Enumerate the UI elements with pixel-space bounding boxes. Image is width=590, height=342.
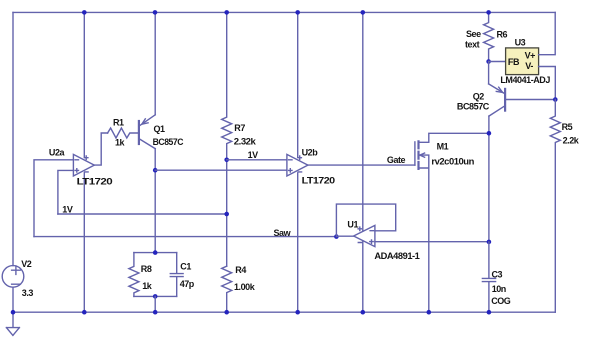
svg-text:V2: V2 [21, 259, 32, 269]
svg-text:C1: C1 [180, 262, 191, 272]
junction top rail at R7 [224, 10, 229, 15]
svg-text:LT1720: LT1720 [77, 177, 113, 187]
svg-text:R8: R8 [141, 264, 152, 274]
svg-text:1.00k: 1.00k [234, 282, 256, 292]
wire V2 bottom to rail [12, 287, 14, 312]
junction U1 +input at C3 [487, 240, 492, 245]
svg-text:1V: 1V [62, 204, 73, 214]
svg-text:V-: V- [525, 61, 533, 71]
wire M1 drain to collector node [429, 133, 489, 142]
junction bottom rail at U2b [295, 310, 300, 315]
resistor R6 [484, 12, 494, 61]
junction bottom rail at C3 [487, 310, 492, 315]
junction top rail at U2b [295, 10, 300, 15]
resistor R1 [108, 128, 139, 138]
mosfet M1 [415, 141, 429, 169]
svg-text:C3: C3 [492, 270, 503, 280]
junction M1 drain Q2 collector [487, 131, 492, 136]
wire U1 V+ column [362, 12, 364, 231]
wire bottom rail [13, 311, 555, 313]
svg-text:2.32k: 2.32k [234, 137, 257, 147]
transistor Q1 [139, 115, 155, 149]
svg-text:M1: M1 [437, 141, 449, 151]
resistor R5 [550, 100, 560, 313]
svg-text:COG: COG [491, 296, 511, 306]
svg-text:3.3: 3.3 [22, 288, 34, 298]
svg-text:text: text [465, 40, 480, 50]
wire 1V net [58, 213, 227, 215]
svg-text:LM4041-ADJ: LM4041-ADJ [500, 75, 550, 85]
junction top rail at Q1 [153, 10, 158, 15]
wire U2b V- column [297, 173, 299, 312]
wire Q1 collector down to R8 C1 [154, 149, 156, 253]
wire U2a V+ column [83, 12, 85, 157]
svg-text:BC857C: BC857C [153, 137, 184, 147]
junction bottom rail at R4 [224, 310, 229, 315]
junction bottom rail at U1 [361, 310, 366, 315]
junction bottom rail at R8 C1 [153, 310, 158, 315]
junction ramp node at R8 C1 top [153, 250, 158, 255]
svg-text:1V: 1V [248, 150, 259, 160]
wire Q2 base to R5 node [505, 99, 555, 101]
svg-text:U2b: U2b [302, 148, 319, 158]
svg-text:R6: R6 [497, 29, 508, 39]
svg-text:R5: R5 [562, 122, 573, 132]
wire M1 source to bottom rail [428, 168, 430, 312]
junction bottom rail at M1 source [427, 310, 432, 315]
svg-text:Q2: Q2 [473, 91, 485, 101]
svg-text:BC857C: BC857C [457, 102, 490, 112]
svg-text:U2a: U2a [49, 147, 66, 157]
svg-text:See: See [466, 29, 481, 39]
resistor R7 [222, 12, 232, 266]
capacitor C3 [482, 242, 495, 312]
capacitor C1 [170, 253, 183, 297]
wire R8 C1 bottom to rail [154, 296, 156, 312]
junction top rail at U1 [361, 10, 366, 15]
svg-text:47p: 47p [180, 279, 195, 289]
wire U2b V+ column [297, 12, 299, 157]
resistor R4 [222, 266, 232, 312]
junction Q1 collector node [153, 168, 158, 173]
svg-text:R4: R4 [235, 265, 246, 275]
svg-text:Q1: Q1 [154, 124, 166, 134]
junction 1V tee to U2a [224, 212, 229, 217]
svg-text:LT1720: LT1720 [302, 175, 336, 185]
svg-text:V+: V+ [525, 50, 536, 60]
wire U2a -input loop to Saw [34, 160, 73, 237]
svg-text:10n: 10n [492, 284, 506, 294]
svg-text:ADA4891-1: ADA4891-1 [374, 251, 419, 261]
junction top rail at R6 [486, 10, 491, 15]
transistor Q2 [489, 62, 506, 117]
wire U1 feedback loop [336, 204, 395, 237]
junction FB node [486, 59, 491, 64]
op-amp U1 [354, 225, 375, 246]
svg-text:1k: 1k [115, 138, 126, 148]
wire U1 +input to C3 node [375, 241, 489, 243]
svg-text:FB: FB [508, 57, 520, 67]
wire Saw net [34, 236, 336, 238]
svg-text:U1: U1 [347, 220, 358, 230]
wire R8 C1 bottom bracket [134, 295, 177, 297]
junction R8 C1 bottom [153, 294, 158, 299]
svg-text:2.2k: 2.2k [563, 136, 580, 146]
wire Q2 collector to C3 node [488, 116, 490, 242]
wire U2a +input to 1V riser [58, 170, 74, 214]
svg-text:1k: 1k [142, 281, 153, 291]
svg-text:Gate: Gate [387, 155, 406, 165]
svg-text:U3: U3 [515, 38, 526, 48]
wire U2a V- column [83, 173, 85, 312]
wire U3 V+ to top rail [539, 12, 556, 54]
junction 1V tee to U2b [224, 158, 229, 163]
wire Q1 emitter to top rail [154, 12, 156, 114]
wire top rail [13, 11, 555, 13]
junction bottom rail at V2 [11, 310, 16, 315]
svg-text:R7: R7 [234, 123, 245, 133]
svg-text:R1: R1 [113, 118, 124, 128]
wire U1 output to Saw [336, 235, 353, 237]
ground [6, 312, 19, 335]
wire ramp node to U2b +input [155, 169, 287, 171]
junction top rail at U2a [82, 10, 87, 15]
wire U3 V- down to base node [539, 67, 556, 100]
wire 1V to U2b -input [227, 159, 287, 161]
wire R8 C1 top bracket [134, 252, 177, 254]
wire Gate net [308, 164, 415, 166]
wire U1 V- column [362, 241, 364, 312]
regulator U3 box [506, 48, 539, 75]
junction Q2 base V- R5 [553, 97, 558, 102]
wire U2a output to R1 [94, 133, 107, 165]
op-amp U2b [287, 154, 308, 176]
op-amp U2a [73, 154, 94, 176]
voltage source V2 [2, 266, 24, 288]
junction bottom rail at U2a [82, 310, 87, 315]
svg-text:rv2c010un: rv2c010un [431, 156, 474, 166]
wire left column from top rail to V2 [12, 12, 14, 265]
wire FB node to U3 [489, 61, 506, 63]
resistor R8 [129, 253, 139, 297]
junction Saw at U1 output [334, 234, 339, 239]
